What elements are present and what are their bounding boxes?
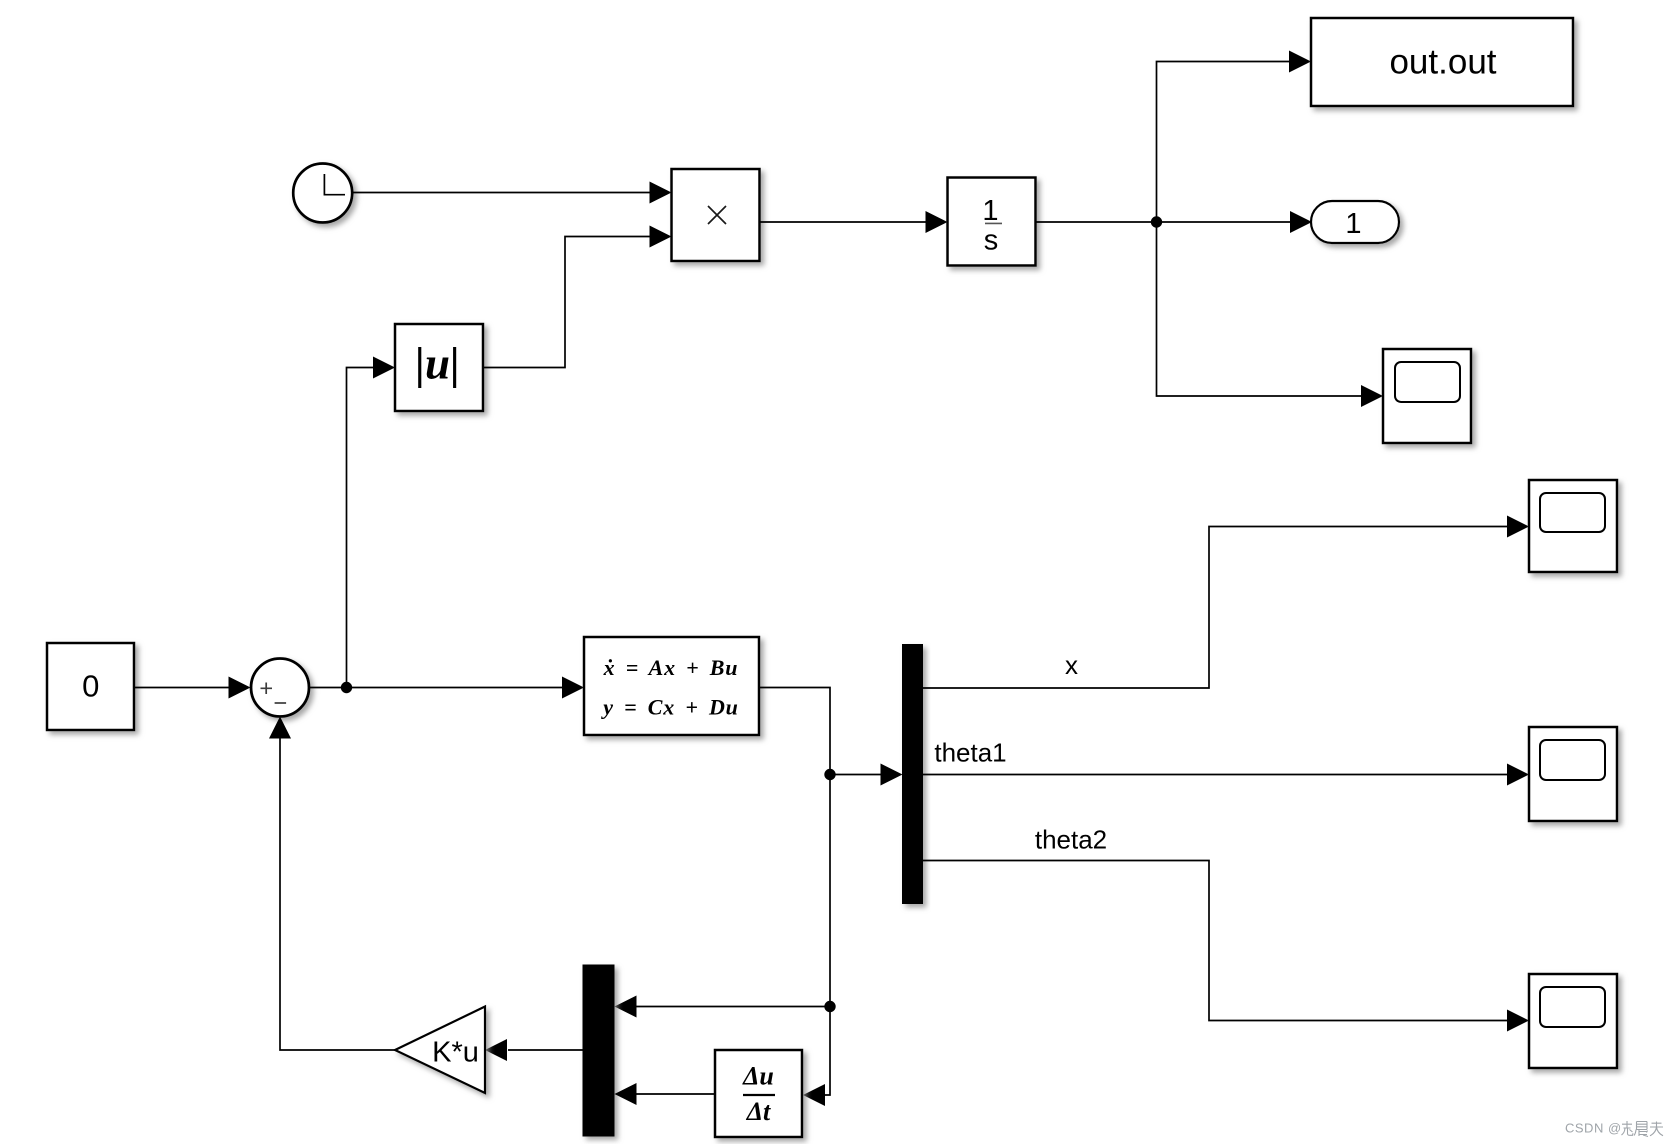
out port 1 <box>1311 201 1399 243</box>
wire gain out to sum bottom <box>269 717 395 1051</box>
constant block 0 <box>47 643 134 730</box>
svg-text:Δt: Δt <box>746 1097 771 1126</box>
svg-text:Δu: Δu <box>742 1062 774 1091</box>
state-space block <box>584 637 759 735</box>
derivative block du/dt <box>715 1050 802 1137</box>
wire demux out theta1 to scope3 <box>923 764 1530 786</box>
svg-text:theta2: theta2 <box>1035 825 1107 855</box>
wire product to integrator <box>760 211 948 233</box>
svg-text:1: 1 <box>982 195 998 227</box>
mux block <box>583 965 614 1136</box>
wire 0 to sum <box>135 677 251 699</box>
watermark <box>1565 1121 1663 1137</box>
junction node rail to mux <box>824 1001 835 1012</box>
svg-text:y = Cx + Du: y = Cx + Du <box>600 695 738 720</box>
svg-text:K*u: K*u <box>432 1037 479 1069</box>
wire clock to product <box>352 182 672 204</box>
gain block K*u <box>395 1007 485 1094</box>
svg-text:ẋ = Ax + Bu: ẋ = Ax + Bu <box>603 655 739 680</box>
wire rail to demux <box>830 764 903 786</box>
wire demux out theta2 to scope4 <box>923 861 1530 1032</box>
abs block |u| <box>395 324 483 411</box>
scope block Scope4 <box>1529 974 1617 1068</box>
svg-text:1: 1 <box>1345 208 1361 240</box>
svg-text:x: x <box>1065 650 1078 680</box>
junction node <box>1151 216 1162 227</box>
wire state-space out down the right rail <box>760 688 831 1107</box>
watermark glyph long <box>1622 1121 1634 1135</box>
wire derivative out to mux bottom input <box>615 1083 716 1105</box>
svg-text:out.out: out.out <box>1389 43 1496 82</box>
scope block Scope2 <box>1529 480 1617 572</box>
wire abs out to product in2 <box>484 226 672 368</box>
product block X <box>672 169 760 261</box>
svg-text:0: 0 <box>82 669 99 704</box>
to-file block out.out <box>1311 18 1573 106</box>
wire junction up to out.out <box>1157 51 1312 223</box>
svg-text:|u|: |u| <box>415 339 460 389</box>
wire abs feedback riser from sum junction <box>347 357 396 688</box>
wire rail to mux top input <box>615 996 831 1018</box>
watermark glyph tian <box>1650 1122 1663 1136</box>
svg-text:s: s <box>984 225 999 257</box>
svg-text:CSDN @: CSDN @ <box>1565 1121 1622 1136</box>
wire integrator to out port with junction <box>1036 211 1313 233</box>
integrator block 1/s <box>948 178 1036 266</box>
wire mux out to gain <box>485 1039 583 1061</box>
demux block <box>903 645 923 904</box>
junction node after sum <box>341 682 352 693</box>
scope block Scope3 <box>1529 727 1617 821</box>
watermark glyph chen <box>1634 1122 1648 1137</box>
wire junction down to scope1 <box>1157 222 1384 407</box>
sum block +- <box>251 659 309 717</box>
wire demux out x to scope2 <box>923 516 1530 689</box>
scope block Scope1 <box>1383 349 1471 443</box>
clock block Clock <box>293 164 352 223</box>
wire sum to state-space <box>309 677 584 699</box>
junction node rail to demux <box>824 769 835 780</box>
svg-text:theta1: theta1 <box>934 738 1006 768</box>
